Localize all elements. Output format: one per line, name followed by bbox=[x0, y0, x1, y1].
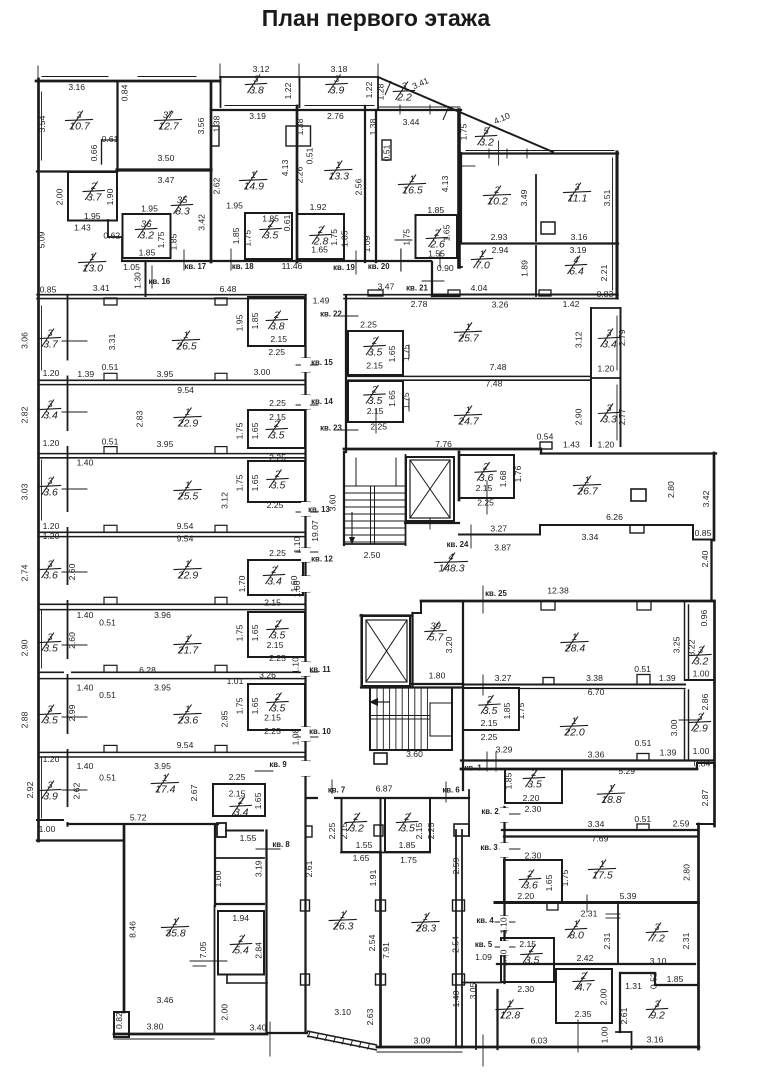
svg-text:7.05: 7.05 bbox=[198, 941, 208, 958]
svg-text:1.70: 1.70 bbox=[499, 949, 509, 966]
svg-text:1.09: 1.09 bbox=[475, 952, 492, 962]
svg-text:кв. 7: кв. 7 bbox=[328, 786, 345, 795]
svg-text:3.05: 3.05 bbox=[468, 982, 478, 999]
svg-text:2.60: 2.60 bbox=[67, 632, 77, 649]
svg-text:6.28: 6.28 bbox=[139, 665, 156, 675]
svg-text:1.85: 1.85 bbox=[502, 702, 512, 719]
svg-text:2.63: 2.63 bbox=[365, 1008, 375, 1025]
svg-text:2.59: 2.59 bbox=[451, 857, 461, 874]
svg-text:1.00: 1.00 bbox=[693, 746, 710, 756]
svg-text:6.87: 6.87 bbox=[376, 784, 393, 794]
svg-text:0.85: 0.85 bbox=[695, 528, 712, 538]
svg-text:кв. 12: кв. 12 bbox=[311, 555, 333, 564]
svg-text:2.26: 2.26 bbox=[294, 166, 304, 183]
svg-text:кв. 5: кв. 5 bbox=[475, 940, 493, 949]
svg-text:2.86: 2.86 bbox=[700, 693, 710, 710]
svg-text:1.40: 1.40 bbox=[77, 610, 94, 620]
svg-text:кв. 1: кв. 1 bbox=[464, 764, 482, 773]
svg-text:2.80: 2.80 bbox=[682, 864, 692, 881]
svg-text:3.06: 3.06 bbox=[20, 332, 30, 349]
svg-text:6.70: 6.70 bbox=[588, 687, 605, 697]
svg-text:кв. 25: кв. 25 bbox=[485, 589, 507, 598]
svg-text:1.10: 1.10 bbox=[292, 536, 302, 553]
svg-text:0.54: 0.54 bbox=[537, 432, 554, 442]
svg-text:2.25: 2.25 bbox=[370, 422, 387, 432]
svg-text:1.75: 1.75 bbox=[235, 474, 245, 491]
svg-text:кв. 17: кв. 17 bbox=[184, 262, 206, 271]
svg-text:1.05: 1.05 bbox=[123, 262, 140, 272]
svg-text:2.15: 2.15 bbox=[264, 598, 281, 608]
svg-text:2.15: 2.15 bbox=[476, 483, 493, 493]
svg-text:4.13: 4.13 bbox=[440, 175, 450, 192]
svg-text:1.28: 1.28 bbox=[376, 83, 386, 100]
svg-text:1.55: 1.55 bbox=[356, 840, 373, 850]
svg-text:1.00: 1.00 bbox=[39, 824, 56, 834]
svg-text:148.3: 148.3 bbox=[438, 563, 464, 575]
svg-text:0.51: 0.51 bbox=[634, 814, 651, 824]
svg-text:1.38: 1.38 bbox=[212, 115, 222, 132]
svg-text:3.16: 3.16 bbox=[571, 232, 588, 242]
svg-text:7.91: 7.91 bbox=[381, 942, 391, 959]
svg-text:1.70: 1.70 bbox=[237, 575, 247, 592]
svg-text:3.16: 3.16 bbox=[68, 82, 85, 92]
svg-text:кв. 23: кв. 23 bbox=[320, 424, 342, 433]
svg-text:2.30: 2.30 bbox=[525, 804, 542, 814]
svg-text:2.82: 2.82 bbox=[20, 406, 30, 423]
svg-text:3.31: 3.31 bbox=[107, 333, 117, 350]
svg-text:2.30: 2.30 bbox=[517, 984, 534, 994]
svg-text:2.15: 2.15 bbox=[481, 718, 498, 728]
svg-text:1.20: 1.20 bbox=[43, 754, 60, 764]
svg-text:6.48: 6.48 bbox=[220, 284, 237, 294]
svg-text:25.5: 25.5 bbox=[177, 491, 199, 503]
svg-text:2.93: 2.93 bbox=[491, 232, 508, 242]
svg-text:3.26: 3.26 bbox=[492, 300, 509, 310]
svg-text:0.83: 0.83 bbox=[597, 289, 614, 299]
svg-text:2.31: 2.31 bbox=[602, 932, 612, 949]
svg-text:3.27: 3.27 bbox=[490, 524, 507, 534]
svg-text:3.10: 3.10 bbox=[650, 956, 667, 966]
svg-text:5.72: 5.72 bbox=[130, 813, 147, 823]
svg-text:2.25: 2.25 bbox=[426, 822, 436, 839]
svg-text:2.56: 2.56 bbox=[353, 178, 363, 195]
svg-text:1.00: 1.00 bbox=[693, 669, 710, 679]
svg-text:2.25: 2.25 bbox=[269, 453, 286, 463]
svg-text:1.20: 1.20 bbox=[598, 439, 615, 449]
svg-text:1.65: 1.65 bbox=[250, 422, 260, 439]
svg-text:1.85: 1.85 bbox=[139, 248, 156, 258]
svg-text:1.39: 1.39 bbox=[659, 673, 676, 683]
svg-text:кв. 6: кв. 6 bbox=[442, 786, 460, 795]
svg-text:8.46: 8.46 bbox=[128, 921, 138, 938]
svg-text:1.20: 1.20 bbox=[43, 368, 60, 378]
svg-text:1.75: 1.75 bbox=[516, 702, 526, 719]
svg-text:3.46: 3.46 bbox=[157, 995, 174, 1005]
svg-text:3.95: 3.95 bbox=[157, 369, 174, 379]
svg-text:2.25: 2.25 bbox=[269, 548, 286, 558]
svg-text:0.84: 0.84 bbox=[694, 759, 711, 769]
svg-text:3.10: 3.10 bbox=[334, 1007, 351, 1017]
svg-text:3.51: 3.51 bbox=[602, 189, 612, 206]
svg-text:1.43: 1.43 bbox=[74, 223, 91, 233]
svg-text:1.10: 1.10 bbox=[291, 657, 301, 674]
svg-text:1.38: 1.38 bbox=[295, 118, 305, 135]
svg-text:3.26: 3.26 bbox=[259, 670, 276, 680]
svg-text:1.85: 1.85 bbox=[250, 312, 260, 329]
svg-text:0.51: 0.51 bbox=[99, 618, 116, 628]
svg-text:0.66: 0.66 bbox=[89, 144, 99, 161]
svg-text:2.84: 2.84 bbox=[254, 942, 264, 959]
svg-text:4.04: 4.04 bbox=[471, 283, 488, 293]
svg-text:1.75: 1.75 bbox=[401, 344, 411, 361]
svg-text:3.87: 3.87 bbox=[494, 542, 511, 552]
svg-text:2.25: 2.25 bbox=[229, 772, 246, 782]
svg-text:3.49: 3.49 bbox=[519, 189, 529, 206]
svg-text:26.5: 26.5 bbox=[175, 341, 197, 353]
svg-text:кв. 8: кв. 8 bbox=[272, 840, 290, 849]
svg-text:3.29: 3.29 bbox=[496, 745, 513, 755]
svg-text:0.51: 0.51 bbox=[304, 147, 314, 164]
svg-text:1.75: 1.75 bbox=[235, 624, 245, 641]
svg-text:2.42: 2.42 bbox=[577, 953, 594, 963]
svg-text:0.52: 0.52 bbox=[649, 972, 659, 989]
svg-text:3.00: 3.00 bbox=[669, 719, 679, 736]
svg-text:1.65: 1.65 bbox=[387, 345, 397, 362]
svg-text:3.09: 3.09 bbox=[414, 1036, 431, 1046]
svg-text:1.10: 1.10 bbox=[499, 917, 509, 934]
svg-text:2.00: 2.00 bbox=[219, 1004, 229, 1021]
svg-text:1.31: 1.31 bbox=[625, 981, 642, 991]
svg-text:7.48: 7.48 bbox=[486, 378, 503, 388]
svg-text:1.90: 1.90 bbox=[105, 188, 115, 205]
svg-text:6.26: 6.26 bbox=[606, 512, 623, 522]
svg-text:3.95: 3.95 bbox=[154, 683, 171, 693]
svg-text:0.51: 0.51 bbox=[634, 664, 651, 674]
svg-text:2.62: 2.62 bbox=[71, 782, 81, 799]
svg-text:2.90: 2.90 bbox=[574, 408, 584, 425]
svg-text:кв. 24: кв. 24 bbox=[447, 540, 469, 549]
svg-text:2.90: 2.90 bbox=[20, 639, 30, 656]
svg-text:1.85: 1.85 bbox=[231, 227, 241, 244]
svg-text:1.65: 1.65 bbox=[250, 697, 260, 714]
svg-text:1.75: 1.75 bbox=[156, 231, 166, 248]
svg-text:3.60: 3.60 bbox=[328, 494, 338, 511]
svg-text:кв. 16: кв. 16 bbox=[148, 277, 170, 286]
svg-text:1.95: 1.95 bbox=[84, 211, 101, 221]
svg-text:кв. 9: кв. 9 bbox=[269, 760, 287, 769]
svg-text:1.85: 1.85 bbox=[169, 233, 179, 250]
svg-text:2.80: 2.80 bbox=[666, 481, 676, 498]
svg-text:3.22: 3.22 bbox=[687, 639, 697, 656]
svg-text:1.80: 1.80 bbox=[429, 671, 446, 681]
svg-text:0.51: 0.51 bbox=[635, 738, 652, 748]
svg-text:12.38: 12.38 bbox=[547, 586, 569, 596]
svg-text:2.76: 2.76 bbox=[327, 111, 344, 121]
svg-text:1.75: 1.75 bbox=[235, 697, 245, 714]
svg-text:1.91: 1.91 bbox=[368, 869, 378, 886]
svg-text:5.29: 5.29 bbox=[618, 766, 635, 776]
svg-text:7.48: 7.48 bbox=[490, 362, 507, 372]
svg-text:9.54: 9.54 bbox=[177, 534, 194, 544]
svg-text:0.51: 0.51 bbox=[382, 144, 392, 161]
svg-text:2.9: 2.9 bbox=[692, 723, 708, 735]
svg-text:2.00: 2.00 bbox=[54, 188, 64, 205]
svg-text:2.25: 2.25 bbox=[268, 347, 285, 357]
svg-text:6.03: 6.03 bbox=[531, 1036, 548, 1046]
svg-text:2.74: 2.74 bbox=[20, 564, 30, 581]
svg-text:1.75: 1.75 bbox=[402, 229, 412, 246]
svg-text:2.94: 2.94 bbox=[492, 245, 509, 255]
svg-text:3.19: 3.19 bbox=[570, 245, 587, 255]
svg-text:2.00: 2.00 bbox=[599, 988, 609, 1005]
svg-text:1.65: 1.65 bbox=[387, 390, 397, 407]
svg-text:2.87: 2.87 bbox=[700, 789, 710, 806]
svg-text:2.50: 2.50 bbox=[364, 550, 381, 560]
svg-text:3.20: 3.20 bbox=[444, 636, 454, 653]
svg-text:3.03: 3.03 bbox=[20, 483, 30, 500]
svg-text:0.51: 0.51 bbox=[99, 690, 116, 700]
svg-text:2.40: 2.40 bbox=[700, 550, 710, 567]
svg-text:9.54: 9.54 bbox=[177, 740, 194, 750]
svg-text:1.68: 1.68 bbox=[498, 470, 508, 487]
svg-text:1.43: 1.43 bbox=[563, 440, 580, 450]
svg-text:0.51: 0.51 bbox=[102, 362, 119, 372]
svg-text:2.21: 2.21 bbox=[599, 264, 609, 281]
svg-text:1.49: 1.49 bbox=[313, 296, 330, 306]
svg-text:5.09: 5.09 bbox=[37, 231, 47, 248]
svg-text:3.54: 3.54 bbox=[37, 115, 47, 132]
svg-text:2.15: 2.15 bbox=[414, 822, 424, 839]
svg-text:0.90: 0.90 bbox=[437, 263, 454, 273]
svg-text:3.47: 3.47 bbox=[378, 282, 395, 292]
svg-text:2.8: 2.8 bbox=[313, 236, 329, 248]
svg-text:3.41: 3.41 bbox=[93, 283, 110, 293]
svg-text:22.9: 22.9 bbox=[177, 418, 199, 430]
svg-text:1.42: 1.42 bbox=[563, 299, 580, 309]
svg-text:3.16: 3.16 bbox=[647, 1035, 664, 1045]
svg-text:28.3: 28.3 bbox=[415, 923, 437, 935]
svg-text:1.85: 1.85 bbox=[399, 840, 416, 850]
svg-text:9.54: 9.54 bbox=[177, 521, 194, 531]
svg-text:2.59: 2.59 bbox=[673, 819, 690, 829]
svg-text:2.78: 2.78 bbox=[411, 299, 428, 309]
svg-text:0.96: 0.96 bbox=[699, 609, 709, 626]
svg-text:0.61: 0.61 bbox=[282, 214, 292, 231]
svg-text:2.6: 2.6 bbox=[429, 239, 445, 251]
svg-text:3.40: 3.40 bbox=[250, 1023, 267, 1033]
svg-text:кв. 20: кв. 20 bbox=[368, 262, 390, 271]
svg-text:3.19: 3.19 bbox=[249, 111, 266, 121]
svg-text:1.40: 1.40 bbox=[77, 761, 94, 771]
svg-text:9.54: 9.54 bbox=[177, 385, 194, 395]
svg-text:1.95: 1.95 bbox=[226, 201, 243, 211]
svg-text:2.31: 2.31 bbox=[681, 932, 691, 949]
svg-text:0.85: 0.85 bbox=[40, 285, 57, 295]
svg-text:2.30: 2.30 bbox=[525, 851, 542, 861]
svg-text:1.75: 1.75 bbox=[235, 422, 245, 439]
svg-text:2.25: 2.25 bbox=[264, 726, 281, 736]
svg-text:2.54: 2.54 bbox=[451, 936, 461, 953]
svg-text:2.83: 2.83 bbox=[135, 410, 145, 427]
svg-text:3.12: 3.12 bbox=[574, 331, 584, 348]
svg-text:2.15: 2.15 bbox=[366, 361, 383, 371]
svg-text:2.15: 2.15 bbox=[267, 640, 284, 650]
svg-text:1.09: 1.09 bbox=[362, 235, 372, 252]
svg-text:22.9: 22.9 bbox=[177, 570, 199, 582]
svg-text:кв. 14: кв. 14 bbox=[311, 397, 333, 406]
svg-text:2.92: 2.92 bbox=[25, 781, 35, 798]
svg-text:1.75: 1.75 bbox=[459, 123, 469, 140]
svg-text:1.22: 1.22 bbox=[283, 82, 293, 99]
svg-text:1.85: 1.85 bbox=[427, 205, 444, 215]
svg-text:1.94: 1.94 bbox=[232, 913, 249, 923]
svg-text:3.18: 3.18 bbox=[331, 64, 348, 74]
svg-text:2.25: 2.25 bbox=[481, 732, 498, 742]
svg-text:7.69: 7.69 bbox=[592, 834, 609, 844]
svg-text:2.20: 2.20 bbox=[517, 891, 534, 901]
svg-text:5.39: 5.39 bbox=[620, 891, 637, 901]
svg-text:3.12: 3.12 bbox=[220, 492, 230, 509]
svg-text:3.56: 3.56 bbox=[196, 117, 206, 134]
svg-text:1.89: 1.89 bbox=[520, 260, 530, 277]
svg-text:2.99: 2.99 bbox=[67, 704, 77, 721]
svg-text:1.92: 1.92 bbox=[310, 202, 327, 212]
svg-text:7.76: 7.76 bbox=[435, 439, 452, 449]
svg-text:План первого этажа: План первого этажа bbox=[262, 5, 491, 31]
svg-text:1.20: 1.20 bbox=[43, 531, 60, 541]
svg-text:23.6: 23.6 bbox=[177, 715, 199, 727]
svg-text:1.01: 1.01 bbox=[227, 676, 244, 686]
svg-text:2.2: 2.2 bbox=[396, 92, 412, 104]
svg-text:кв. 10: кв. 10 bbox=[309, 727, 331, 736]
svg-text:22.0: 22.0 bbox=[563, 727, 585, 739]
svg-text:1.85: 1.85 bbox=[504, 772, 514, 789]
svg-text:3.12: 3.12 bbox=[253, 64, 270, 74]
svg-text:3.19: 3.19 bbox=[254, 860, 264, 877]
svg-text:1.65: 1.65 bbox=[250, 624, 260, 641]
svg-text:2.85: 2.85 bbox=[220, 710, 230, 727]
svg-text:0.51: 0.51 bbox=[99, 773, 116, 783]
svg-text:11.46: 11.46 bbox=[282, 261, 303, 271]
svg-text:кв. 4: кв. 4 bbox=[476, 916, 494, 925]
svg-text:кв. 18: кв. 18 bbox=[232, 262, 254, 271]
svg-text:1.75: 1.75 bbox=[560, 869, 570, 886]
svg-text:3.25: 3.25 bbox=[672, 636, 682, 653]
svg-text:1.20: 1.20 bbox=[43, 521, 60, 531]
svg-text:1.39: 1.39 bbox=[660, 748, 677, 758]
svg-text:3.60: 3.60 bbox=[406, 749, 423, 759]
svg-text:2.35: 2.35 bbox=[575, 1009, 592, 1019]
svg-text:1.30: 1.30 bbox=[132, 272, 142, 289]
svg-text:3.42: 3.42 bbox=[196, 214, 206, 231]
svg-text:1.38: 1.38 bbox=[368, 118, 378, 135]
svg-text:1.22: 1.22 bbox=[364, 81, 374, 98]
svg-text:2.25: 2.25 bbox=[267, 500, 284, 510]
svg-text:1.40: 1.40 bbox=[77, 458, 94, 468]
svg-text:1.40: 1.40 bbox=[77, 683, 94, 693]
svg-text:4.13: 4.13 bbox=[280, 159, 290, 176]
svg-text:3.42: 3.42 bbox=[701, 490, 711, 507]
svg-text:1.75: 1.75 bbox=[401, 392, 411, 409]
svg-text:0.51: 0.51 bbox=[102, 437, 119, 447]
svg-text:2.20: 2.20 bbox=[523, 793, 540, 803]
svg-text:1.55: 1.55 bbox=[240, 833, 257, 843]
svg-text:1.39: 1.39 bbox=[77, 369, 94, 379]
svg-text:1.65: 1.65 bbox=[544, 874, 554, 891]
svg-text:26.3: 26.3 bbox=[332, 921, 354, 933]
svg-text:2.25: 2.25 bbox=[269, 653, 286, 663]
svg-text:2.62: 2.62 bbox=[212, 177, 222, 194]
svg-text:кв. 2: кв. 2 bbox=[481, 807, 499, 816]
svg-text:2.88: 2.88 bbox=[20, 711, 30, 728]
svg-text:3.34: 3.34 bbox=[588, 819, 605, 829]
svg-text:3.38: 3.38 bbox=[586, 673, 603, 683]
svg-text:3.27: 3.27 bbox=[495, 673, 512, 683]
svg-text:2.54: 2.54 bbox=[367, 934, 377, 951]
svg-text:1.75: 1.75 bbox=[242, 230, 252, 247]
svg-text:2.31: 2.31 bbox=[581, 909, 598, 919]
svg-text:1.75: 1.75 bbox=[329, 229, 339, 246]
svg-text:3.50: 3.50 bbox=[158, 153, 175, 163]
svg-text:кв. 11: кв. 11 bbox=[309, 665, 331, 674]
svg-text:1.60: 1.60 bbox=[292, 580, 302, 597]
svg-text:кв. 19: кв. 19 bbox=[333, 263, 355, 272]
svg-text:1.20: 1.20 bbox=[598, 363, 615, 373]
svg-text:1.85: 1.85 bbox=[340, 230, 350, 247]
svg-text:1.95: 1.95 bbox=[141, 204, 158, 214]
svg-text:3.80: 3.80 bbox=[147, 1022, 164, 1032]
svg-text:2.77: 2.77 bbox=[617, 408, 627, 425]
svg-text:3.95: 3.95 bbox=[157, 439, 174, 449]
svg-text:1.65: 1.65 bbox=[353, 853, 370, 863]
svg-text:кв. 3: кв. 3 bbox=[480, 843, 498, 852]
svg-text:1.76: 1.76 bbox=[513, 465, 523, 482]
svg-text:3.96: 3.96 bbox=[154, 610, 171, 620]
svg-text:1.75: 1.75 bbox=[400, 855, 417, 865]
svg-text:2.25: 2.25 bbox=[269, 398, 286, 408]
svg-text:кв. 15: кв. 15 bbox=[311, 358, 333, 367]
svg-text:2.25: 2.25 bbox=[477, 498, 494, 508]
svg-text:1.85: 1.85 bbox=[667, 974, 684, 984]
svg-text:3.95: 3.95 bbox=[154, 761, 171, 771]
svg-text:1.08: 1.08 bbox=[291, 728, 301, 745]
svg-text:1.00: 1.00 bbox=[600, 1026, 610, 1043]
svg-text:1.40: 1.40 bbox=[451, 990, 461, 1007]
svg-text:3.47: 3.47 bbox=[158, 175, 175, 185]
svg-text:2.67: 2.67 bbox=[189, 784, 199, 801]
svg-text:2.25: 2.25 bbox=[360, 320, 377, 330]
svg-text:0.62: 0.62 bbox=[103, 231, 120, 241]
svg-text:0.82: 0.82 bbox=[114, 1012, 124, 1029]
svg-text:1.20: 1.20 bbox=[43, 438, 60, 448]
svg-text:кв. 22: кв. 22 bbox=[320, 310, 342, 319]
svg-text:3.34: 3.34 bbox=[582, 532, 599, 542]
svg-text:2.15: 2.15 bbox=[270, 334, 287, 344]
svg-text:3.00: 3.00 bbox=[254, 367, 271, 377]
svg-text:1.65: 1.65 bbox=[253, 792, 263, 809]
svg-text:19.07: 19.07 bbox=[310, 520, 320, 542]
svg-text:2.61: 2.61 bbox=[304, 860, 314, 877]
svg-text:3.36: 3.36 bbox=[588, 750, 605, 760]
svg-text:2.15: 2.15 bbox=[367, 406, 384, 416]
svg-text:кв. 21: кв. 21 bbox=[406, 284, 428, 293]
svg-text:28.4: 28.4 bbox=[564, 643, 586, 655]
svg-text:1.95: 1.95 bbox=[235, 314, 245, 331]
svg-text:0.61: 0.61 bbox=[102, 134, 119, 144]
svg-text:1.65: 1.65 bbox=[250, 474, 260, 491]
svg-text:3.44: 3.44 bbox=[403, 117, 420, 127]
svg-text:2.61: 2.61 bbox=[619, 1007, 629, 1024]
